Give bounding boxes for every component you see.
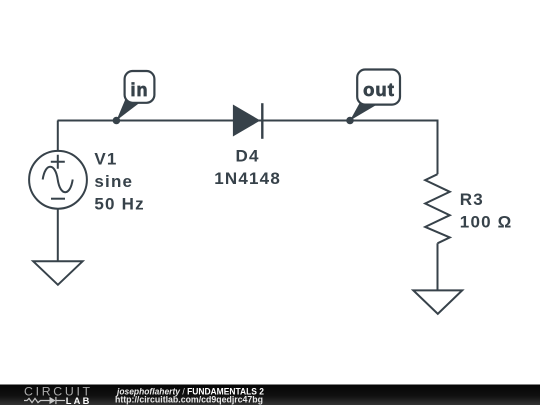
diode D4 <box>233 103 262 139</box>
resistor R3 <box>425 174 450 243</box>
value label 1N4148 <box>214 169 281 188</box>
svg-text:in: in <box>131 80 149 100</box>
svg-text:sine: sine <box>94 172 133 191</box>
ground (below V1) <box>33 261 82 285</box>
voltage source V1 <box>29 151 87 209</box>
node label "out" <box>357 70 400 105</box>
wire: V1 top lead <box>57 121 59 152</box>
svg-text:50 Hz: 50 Hz <box>94 195 144 214</box>
svg-text:D4: D4 <box>236 147 260 166</box>
svg-text:R3: R3 <box>460 190 484 209</box>
wire: main horizontal net (V1 top to R3 top) <box>58 120 438 122</box>
footer bar <box>0 385 540 406</box>
node "in" junction dot <box>113 117 121 125</box>
node label "in" <box>125 71 155 103</box>
CircuitLab logo circuit doodle (resistor zigzag + diode) <box>24 397 65 404</box>
label R3 <box>460 190 484 209</box>
label V1 with value: sine 50 Hz <box>94 150 144 214</box>
flag pointer for node label "out" <box>350 101 378 121</box>
svg-text:V1: V1 <box>94 150 117 169</box>
value label 100 Ω <box>460 212 513 231</box>
wire: R3 bottom lead to ground <box>437 243 439 290</box>
svg-text:http://circuitlab.com/cd9qedjr: http://circuitlab.com/cd9qedjrc47bg <box>115 394 263 404</box>
label D4 <box>236 147 260 166</box>
ground (below R3) <box>413 290 462 314</box>
svg-text:LAB: LAB <box>66 396 92 405</box>
wire: V1 bottom lead to ground <box>57 208 59 261</box>
CircuitLab logo wordmark LAB <box>66 396 92 406</box>
footer title text: josephoflaherty / FUNDAMENTALS 2 <box>116 387 264 397</box>
node "out" junction dot <box>346 117 354 125</box>
svg-text:out: out <box>363 79 395 100</box>
svg-text:1N4148: 1N4148 <box>214 169 281 188</box>
flag pointer for node label "in" <box>116 97 140 121</box>
svg-text:100 Ω: 100 Ω <box>460 212 513 231</box>
CircuitLab logo wordmark CIRCUIT <box>24 385 93 399</box>
footer url text <box>115 394 263 404</box>
wire: R3 top lead <box>437 120 439 175</box>
